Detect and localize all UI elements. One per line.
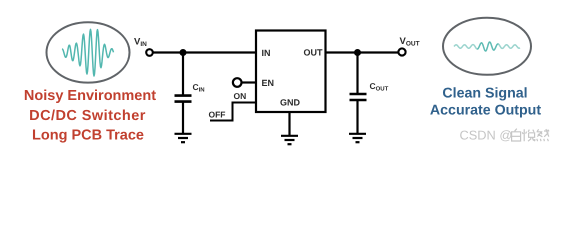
noisy signal waveform [62,29,114,76]
svg-text:VIN: VIN [134,37,147,49]
noisy source ellipse [47,22,130,82]
svg-text:COUT: COUT [370,81,389,93]
caption noisy side [24,88,156,144]
clean signal waveform [454,45,477,50]
svg-text:OFF: OFF [209,110,226,120]
watermark glyph bai [512,129,521,141]
terminal VOUT [398,48,405,55]
svg-text:DC/DC Switcher: DC/DC Switcher [29,108,146,124]
junction node output [354,49,361,56]
wire OUT to VOUT [326,51,399,53]
svg-text:EN: EN [262,78,275,88]
svg-text:VOUT: VOUT [400,36,420,48]
capacitor CIN [175,53,192,134]
ground below CIN [175,134,192,142]
regulator IC U1 [256,31,326,113]
caption clean side [430,86,541,119]
ground below IC [281,136,298,144]
wire GND pin [288,112,290,136]
capacitor COUT [350,53,367,134]
ground below COUT [349,134,366,142]
svg-text:OUT: OUT [304,48,324,58]
svg-text:CSDN @: CSDN @ [460,128,513,143]
svg-text:GND: GND [280,98,301,108]
svg-text:Accurate Output: Accurate Output [430,102,541,118]
watermark glyph ran [537,129,550,141]
wire VIN to IC IN pin [153,51,256,53]
svg-text:ON: ON [234,91,247,101]
svg-text:Clean Signal: Clean Signal [442,86,527,102]
watermark glyph yue [522,129,535,141]
svg-text:Noisy Environment: Noisy Environment [24,88,156,104]
svg-text:IN: IN [262,48,271,58]
terminal EN [233,78,242,87]
enable step waveform OFF to ON [210,103,256,121]
svg-text:Long PCB Trace: Long PCB Trace [32,128,144,144]
terminal VIN [146,49,153,56]
junction node input [180,49,187,56]
svg-text:CIN: CIN [193,82,205,94]
wire EN to IC [242,81,257,83]
clean output ellipse [443,18,531,75]
